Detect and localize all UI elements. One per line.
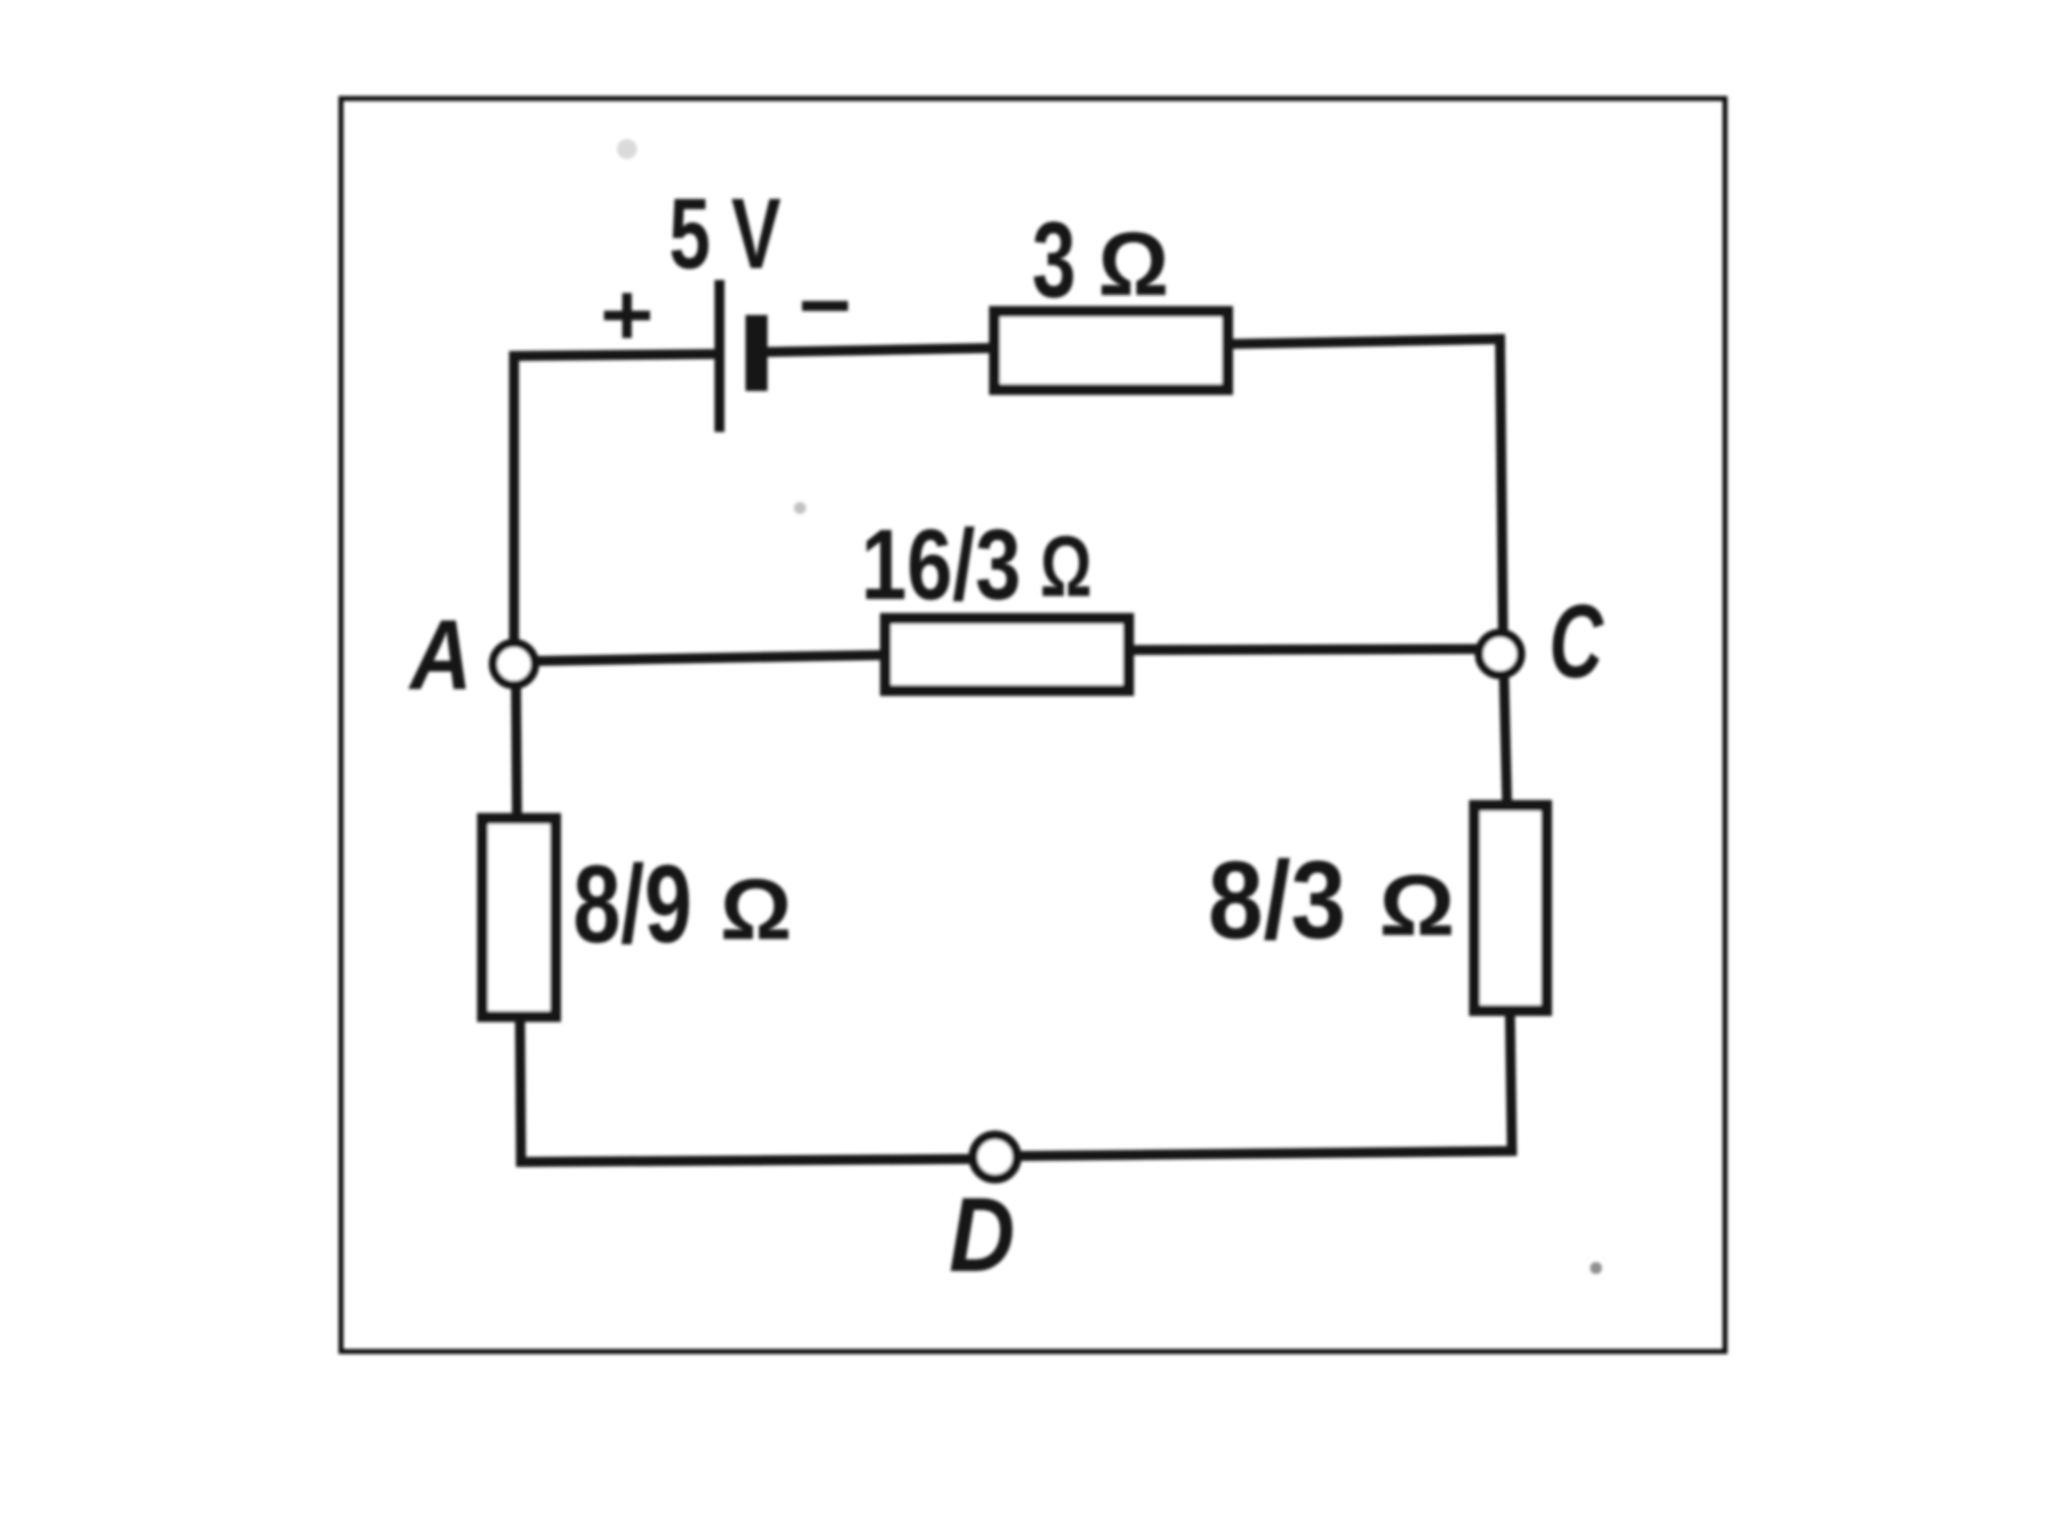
svg-text:Ω: Ω: [1379, 858, 1455, 954]
svg-text:5 V: 5 V: [669, 178, 781, 290]
resistor R2 value label 16/3 ohm: [861, 509, 1092, 621]
svg-text:8/3: 8/3: [1208, 839, 1346, 962]
svg-text:8/9: 8/9: [573, 843, 692, 966]
node A circle: [493, 643, 535, 685]
wire top-left vertical (corner to node A): [509, 351, 519, 640]
battery B1 positive long plate: [715, 280, 725, 432]
wire bottom-right horizontal (node D to corner): [1020, 1151, 1512, 1156]
svg-text:A: A: [407, 599, 472, 710]
resistor R4 value label 8/3 ohm: [1208, 839, 1455, 962]
svg-text:Ω: Ω: [1098, 215, 1169, 315]
svg-text:Ω: Ω: [1040, 519, 1092, 615]
battery plus sign: [604, 293, 650, 338]
wire node A to resistor 8/9 ohm: [516, 688, 517, 816]
svg-text:C: C: [1549, 584, 1604, 700]
wire right vertical (corner to resistor 8/3 ohm): [1510, 1014, 1512, 1156]
wire resistor 16/3 ohm to node C: [1131, 649, 1477, 650]
node D circle: [973, 1135, 1017, 1179]
resistor R2 16/3 ohm body: [886, 619, 1129, 691]
svg-text:3: 3: [1032, 199, 1076, 320]
node C circle: [1479, 633, 1521, 675]
resistor R1 value label 3 ohm: [1032, 199, 1169, 320]
wire top-left horizontal (battery + lead): [512, 354, 716, 356]
wire resistor 8/9 ohm to bottom-left corner: [520, 1020, 521, 1164]
wire battery to resistor 3 ohm: [766, 348, 992, 352]
wire node A to resistor 16/3 ohm: [537, 655, 884, 661]
battery B1 negative short plate: [746, 315, 768, 391]
wire resistor 8/3 ohm to node C: [1504, 678, 1507, 803]
resistor R3 value label 8/9 ohm: [573, 843, 792, 966]
wire bottom-left horizontal (corner to node D): [516, 1159, 970, 1162]
resistor R3 8/9 ohm body: [483, 819, 556, 1017]
resistor R4 8/3 ohm body: [1475, 806, 1547, 1011]
wire right vertical (corner to node C): [1500, 334, 1503, 631]
svg-text:16/3: 16/3: [861, 509, 1021, 621]
svg-text:D: D: [949, 1176, 1015, 1294]
wire resistor 3 ohm to top-right corner: [1230, 339, 1505, 344]
battery minus sign: [802, 301, 848, 311]
svg-text:Ω: Ω: [720, 862, 792, 958]
resistor R1 3 ohm body: [995, 312, 1228, 390]
